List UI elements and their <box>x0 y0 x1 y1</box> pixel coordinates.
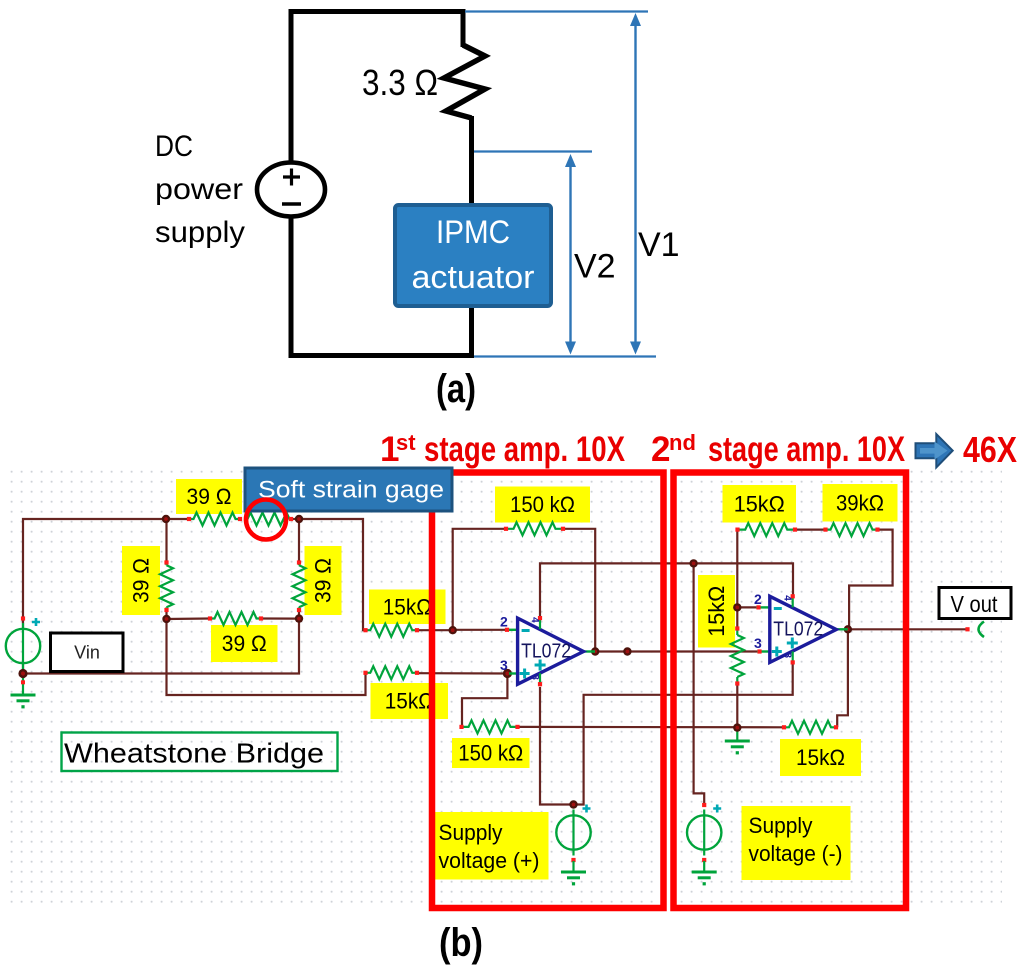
wire: negative supply source up to rail junction <box>694 563 705 806</box>
dimension arrow V1 <box>630 13 641 355</box>
plus mark of voltage source Vin (bridge excitation) <box>32 618 40 626</box>
junction: bridge left mid node <box>162 615 170 623</box>
header: 1st stage amp. 10X <box>380 430 626 469</box>
svg-text:150 kΩ: 150 kΩ <box>458 741 523 766</box>
resistor 15k lower input <box>363 666 419 679</box>
wire: bottom of loop <box>289 353 475 358</box>
wire: upper 15k resistor to op-amp U1 pin 2 node <box>417 629 453 631</box>
wire: 39k right side staircase down to U2 output node <box>849 530 893 630</box>
measurement line: top reference (V1) <box>465 10 648 12</box>
wire: stage1 150k right side down to output node <box>563 529 595 652</box>
IPMC actuator box <box>395 205 551 306</box>
resistor 15k stage2 vertical <box>731 626 744 685</box>
ground at stage2 rail node <box>725 730 750 754</box>
value label 39 ohm (middle resistor R5) <box>211 625 278 662</box>
resistor 15k upper input <box>363 624 419 637</box>
svg-text:39kΩ: 39kΩ <box>836 490 884 515</box>
plus mark of voltage source supply (+) <box>583 805 591 813</box>
junction: U1 output second dot <box>623 647 631 655</box>
measurement line: V2 top reference <box>474 150 592 152</box>
svg-text:39 Ω: 39 Ω <box>187 484 232 509</box>
svg-text:voltage (+): voltage (+) <box>439 848 540 873</box>
wire: U2 output feedback down to bottom 15k <box>837 629 848 727</box>
resistor R2 39ohm (bridge top) <box>187 513 242 526</box>
U1 output pin stub <box>584 650 596 652</box>
junction: positive supply node <box>569 800 577 808</box>
value label 15k (upper input resistor) <box>369 590 446 625</box>
wire: strain gage to bridge top-right node <box>291 518 299 520</box>
value label 15k (stage2 top) <box>723 485 797 523</box>
wire: pin2 node to op-amp U1 inverting input <box>453 629 505 631</box>
wire: part (a) circuit loop <box>291 12 463 356</box>
blue block arrow inner highlight <box>920 442 948 460</box>
svg-text:st: st <box>396 430 416 455</box>
wire: lower 15k resistor to op-amp U1 pin 3 node <box>417 672 507 674</box>
svg-text:voltage (-): voltage (-) <box>749 841 843 866</box>
svg-text:15kΩ: 15kΩ <box>383 594 432 619</box>
resistor 150k stage1 feedback <box>504 522 565 535</box>
svg-text:Soft strain gage: Soft strain gage <box>258 477 444 504</box>
junction: stage2 ground rail node <box>733 723 741 731</box>
red highlight circle around soft strain gage <box>246 500 286 540</box>
resistor R4 39ohm (bridge right) <box>293 560 306 612</box>
resistor 150k stage1 lower <box>459 720 519 733</box>
svg-text:2: 2 <box>500 614 508 630</box>
svg-text:15kΩ: 15kΩ <box>796 745 845 770</box>
value label 39k (stage2 feedback) <box>823 484 898 522</box>
value label 150k (stage1 lower) <box>452 738 530 768</box>
op-amp U2 TL072 (stage 2) <box>770 594 837 664</box>
resistor R3 39ohm (bridge left) <box>160 560 173 612</box>
svg-text:supply: supply <box>155 216 245 249</box>
output terminal pin (green) <box>965 622 984 638</box>
svg-text:V1: V1 <box>638 226 680 264</box>
value label 39 ohm (right resistor R4, rotated) <box>305 546 342 615</box>
svg-text:Supply: Supply <box>749 813 813 838</box>
resistor 15k stage2 bottom <box>782 721 838 734</box>
header: 2nd stage amp. 10X <box>651 430 906 469</box>
wire: vertical 15k down to ground node on rail <box>736 684 738 728</box>
V out label box <box>939 588 1011 619</box>
ground below supply (-) <box>692 861 717 885</box>
value label 39 ohm (top resistor R2) <box>176 479 242 514</box>
svg-text:Supply: Supply <box>439 820 503 845</box>
voltage source supply (-) <box>687 803 721 862</box>
wire: U1 pin3 node down to lower 150k resistor <box>462 674 507 727</box>
junction: source bottom node <box>18 669 27 678</box>
wire: R5 to right mid node <box>261 617 299 619</box>
svg-text:39 Ω: 39 Ω <box>222 631 267 656</box>
svg-text:46X: 46X <box>963 429 1017 470</box>
blue block arrow <box>916 434 953 467</box>
svg-text:150 kΩ: 150 kΩ <box>510 492 575 517</box>
value label 15k (lower input resistor) <box>371 683 449 719</box>
wire: R4 to right mid node <box>298 609 300 619</box>
wire: right branch below resistor into IPMC and to bottom <box>469 116 474 356</box>
U2 input pin stubs <box>756 605 770 653</box>
svg-text:(b): (b) <box>439 921 483 965</box>
svg-text:8: 8 <box>782 652 793 658</box>
Vin label box <box>51 633 124 672</box>
junction: U2 pin2 node <box>733 603 741 611</box>
junction: U1 pin2 node <box>449 626 457 634</box>
voltage source Vin (bridge excitation) <box>6 616 40 675</box>
svg-text:actuator: actuator <box>412 259 535 295</box>
wire: U1 output to stage2 pin 3 <box>595 650 757 652</box>
wire: bridge right branch down to R4 <box>298 519 300 563</box>
svg-text:power: power <box>155 173 243 206</box>
value label 15k (stage2 vertical, rotated) <box>698 575 735 648</box>
wire: U2 pin2 node to inverting input <box>737 606 756 608</box>
svg-text:15kΩ: 15kΩ <box>385 689 434 714</box>
resistor 3.3 ohm zigzag <box>444 45 485 118</box>
Wheatstone Bridge label <box>62 733 338 772</box>
svg-text:V2: V2 <box>574 248 616 286</box>
red box: 1st stage <box>432 473 664 909</box>
op-amp U1 TL072 (stage 1) <box>518 616 584 686</box>
wire: stage2 15k top left side down to U2 pin2 node <box>736 530 738 608</box>
ground below supply (+) <box>561 861 586 885</box>
wire: bridge left branch down to R3 <box>165 519 167 563</box>
junction: bridge top-right node <box>295 515 303 523</box>
svg-text:3: 3 <box>754 635 762 651</box>
resistor R5 39ohm (bridge middle) <box>208 612 263 625</box>
svg-text:39 Ω: 39 Ω <box>129 558 154 603</box>
svg-text:4: 4 <box>529 617 540 623</box>
svg-text:3: 3 <box>500 657 508 673</box>
svg-text:3.3 Ω: 3.3 Ω <box>362 62 438 103</box>
label Supply voltage (+) <box>431 812 549 880</box>
grid dot background of schematic (b) <box>6 465 1002 905</box>
svg-text:Vin: Vin <box>74 643 100 663</box>
measurement line: bottom reference <box>474 355 656 357</box>
dimension arrow V2 <box>565 154 576 355</box>
value label 39 ohm (left resistor R3, rotated) <box>122 546 160 615</box>
voltage source supply (+) <box>556 803 590 862</box>
junction: bridge right mid node <box>295 614 303 622</box>
resistor 15k stage2 top <box>735 523 797 536</box>
wire: U1 V+ pin down to positive supply node <box>540 687 574 805</box>
svg-text:IPMC: IPMC <box>436 214 510 250</box>
wire: U2 pin2 node down to vertical 15k <box>736 607 738 629</box>
wire: U2 V+ pin down across to positive supply node <box>574 664 793 805</box>
svg-text:TL072: TL072 <box>521 641 571 663</box>
junction: bridge top-left node <box>162 515 170 523</box>
svg-text:Wheatstone Bridge: Wheatstone Bridge <box>64 738 324 769</box>
wire: between stage2 top resistors <box>795 528 826 530</box>
junction: U1 pin3 node <box>503 669 512 678</box>
svg-text:2: 2 <box>754 591 762 607</box>
junction: supply rail junction <box>689 559 697 567</box>
svg-text:4: 4 <box>782 595 793 601</box>
U1 input pin stubs <box>505 628 518 674</box>
wire: left mid node to R5 <box>167 617 211 620</box>
svg-text:15kΩ: 15kΩ <box>704 586 729 637</box>
svg-text:(a): (a) <box>436 367 476 411</box>
wire: stage1 feedback 150k left side down to pin2 node <box>453 529 506 630</box>
svg-text:TL072: TL072 <box>773 619 823 641</box>
resistor 39k stage2 feedback <box>823 523 879 536</box>
svg-text:V out: V out <box>951 591 999 617</box>
ground pin mark <box>21 680 25 684</box>
resistor R1 soft strain gage 39ohm <box>244 513 293 526</box>
DC power supply source symbol <box>257 163 325 217</box>
value label 15k (stage2 bottom) <box>780 739 861 776</box>
Soft strain gage callout box <box>245 468 452 511</box>
wire: bridge top node to R2 <box>166 518 190 520</box>
svg-text:2: 2 <box>651 430 670 469</box>
wire: lower 150k output rail to stage2 bottom 15k <box>518 726 785 729</box>
svg-text:stage amp. 10X: stage amp. 10X <box>424 430 626 469</box>
wire: source bottom rail to right mid node <box>23 619 299 674</box>
junction: U1 output node <box>591 647 599 655</box>
red box: 2nd stage <box>674 473 907 909</box>
svg-text:39 Ω: 39 Ω <box>311 558 336 603</box>
wire: top-right node to first 15k resistor <box>299 519 366 630</box>
U2 output pin stub <box>836 628 848 630</box>
wire: supply rail joining both op-amp V- pins <box>540 563 793 616</box>
wire: R3 to left mid node <box>165 609 167 619</box>
wire: source top to bridge top-left node <box>23 519 166 628</box>
svg-text:stage amp. 10X: stage amp. 10X <box>708 430 906 469</box>
svg-text:15kΩ: 15kΩ <box>734 491 785 516</box>
wire: U2 output to V out terminal <box>849 628 967 630</box>
svg-text:DC: DC <box>155 130 193 163</box>
plus mark of voltage source supply (-) <box>713 805 721 813</box>
svg-text:nd: nd <box>669 430 696 455</box>
junction: U2 output node <box>844 625 852 633</box>
ground below Vin source <box>11 676 36 708</box>
label Supply voltage (-) <box>742 806 851 880</box>
svg-text:8: 8 <box>529 674 540 680</box>
label: DC power supply <box>155 130 245 249</box>
value label 150k (stage1 feedback) <box>495 487 590 523</box>
wire: left mid node down and over to lower 15k resistor <box>167 619 366 695</box>
